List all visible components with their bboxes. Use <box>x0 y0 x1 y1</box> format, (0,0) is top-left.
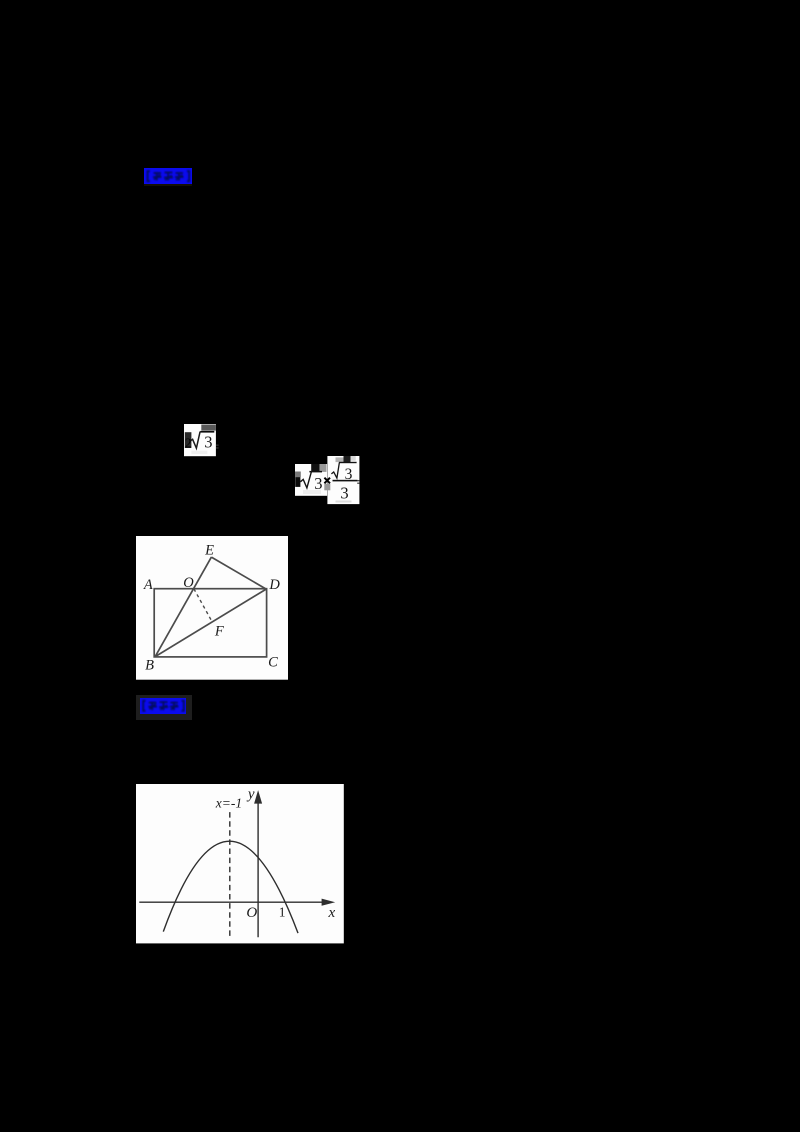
svg-text:F: F <box>214 623 224 639</box>
label 1 glyph blobs <box>144 168 193 185</box>
svg-text:2: 2 <box>185 436 192 451</box>
faint olive underline below label 1 <box>144 184 192 186</box>
rect ABCD <box>154 589 266 657</box>
artifacts right box <box>344 456 351 462</box>
figure 1: rectangle ABCD with E,O,F <box>136 536 288 680</box>
blue highlight label 2 with gray backing <box>136 695 192 720</box>
y axis <box>257 803 259 938</box>
svg-text:B: B <box>145 658 154 674</box>
formula image 1: 2*sqrt(3) <box>184 424 217 457</box>
svg-text:E: E <box>204 543 214 559</box>
times <box>325 478 331 484</box>
svg-text:1: 1 <box>279 905 286 920</box>
equals tail <box>358 480 360 481</box>
x axis arrowhead <box>321 899 335 906</box>
svg-text:A: A <box>143 577 153 593</box>
line B-E <box>155 557 211 657</box>
svg-text:C: C <box>268 655 278 671</box>
blue highlight label 1 <box>144 168 192 184</box>
fraction sqrt(3)/3 <box>339 462 357 463</box>
svg-text:x: x <box>327 905 335 921</box>
parabola <box>163 841 298 933</box>
svg-text:3: 3 <box>341 484 349 503</box>
line E-D <box>211 557 266 589</box>
figure 2: parabola graph <box>136 784 344 944</box>
dashed vertical x=-1 <box>229 812 231 937</box>
svg-text:O: O <box>246 905 257 921</box>
label 2 glyph blobs <box>140 698 186 714</box>
line B-D <box>155 589 266 657</box>
svg-text:y: y <box>246 786 255 802</box>
formula image 2: 2*sqrt(3) x sqrt(3)/3 = <box>295 456 361 505</box>
svg-text:D: D <box>268 577 280 593</box>
left sqrt(3) <box>310 471 323 473</box>
tiny equals after formula 1 <box>216 444 220 450</box>
artifacts left box <box>312 464 320 472</box>
svg-text:3: 3 <box>204 432 212 451</box>
x sign artifacts <box>325 484 331 491</box>
x axis <box>139 901 323 903</box>
y axis arrowhead <box>254 790 262 804</box>
svg-text:x=-1: x=-1 <box>215 796 242 811</box>
dashed O-F <box>194 589 212 622</box>
left white box <box>295 464 327 496</box>
svg-text:O: O <box>183 575 194 591</box>
right white box <box>328 456 360 504</box>
svg-text:3: 3 <box>315 474 323 493</box>
